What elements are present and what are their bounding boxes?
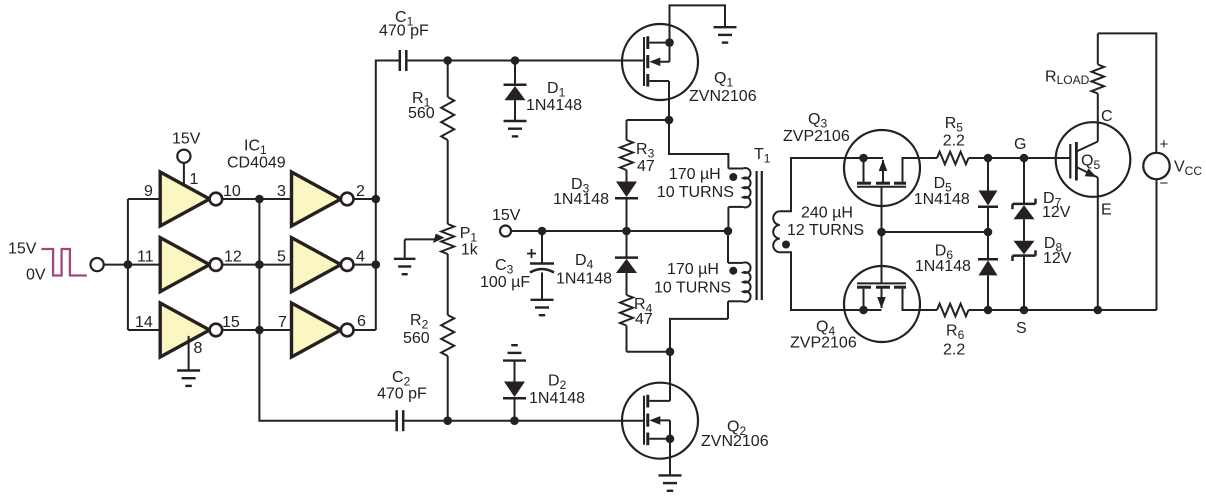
svg-text:CD4049: CD4049 <box>227 155 286 172</box>
svg-text:7: 7 <box>278 314 287 331</box>
capacitor C1 <box>379 9 429 71</box>
zener D8 12V <box>1013 235 1072 310</box>
diode D5 1N4148 <box>914 158 998 232</box>
node mid bus row1 <box>255 195 264 204</box>
wire winding2 to Q2 drain <box>670 319 728 352</box>
wire Q1 junction to winding <box>669 120 728 169</box>
svg-text:+: + <box>1160 136 1169 153</box>
svg-text:15V: 15V <box>492 207 521 224</box>
wire row3 out <box>353 329 376 331</box>
diode D6 1N4148 <box>915 232 998 310</box>
svg-text:ZVN2106: ZVN2106 <box>701 433 769 450</box>
node mid bus row3 <box>255 326 264 335</box>
node mid bus row2 <box>255 260 264 269</box>
node D2 bottom <box>510 416 519 425</box>
resistor R6 <box>937 304 969 359</box>
node D1 top <box>511 56 520 65</box>
wire Q4 gate up <box>881 232 883 283</box>
resistor R1 <box>408 61 454 141</box>
svg-text:170 µH: 170 µH <box>667 261 719 278</box>
transformer T1 core <box>754 146 771 300</box>
wire R1 to P1 <box>447 140 449 224</box>
node D5 D6 <box>984 228 993 237</box>
wire row2 out <box>353 264 376 266</box>
diode D4 1N4148 <box>556 231 638 295</box>
svg-text:170 µH: 170 µH <box>669 166 721 183</box>
wire R4 bottom <box>627 326 671 352</box>
wire D1 node to Q1 gate <box>515 60 644 62</box>
wire row1 input <box>128 198 160 200</box>
svg-text:100 µF: 100 µF <box>480 274 530 291</box>
ground pin8 <box>177 336 200 386</box>
resistor RLOAD <box>1045 33 1104 96</box>
wire R2 to C2 wire <box>447 356 449 421</box>
svg-text:15V: 15V <box>172 131 201 148</box>
svg-text:−: − <box>1160 175 1169 192</box>
transistor Q5 IGBT <box>1056 96 1131 310</box>
pin 12 <box>224 249 242 266</box>
svg-text:12 TURNS: 12 TURNS <box>787 222 864 239</box>
pin 5 <box>277 249 286 266</box>
wire 15V rail <box>511 230 728 232</box>
wire right bus <box>376 61 399 331</box>
node Q3 Q4 gates <box>877 228 886 237</box>
15V terminal mid <box>492 207 521 237</box>
transistor Q4 ZVP2106 <box>790 266 937 352</box>
wire VCC to S row <box>1156 179 1158 310</box>
pin 6 <box>357 313 366 330</box>
svg-text:560: 560 <box>403 330 430 347</box>
phase dot primary 1 <box>729 173 737 181</box>
label CD4049 <box>227 155 286 172</box>
ground Q1 drain <box>714 27 737 42</box>
ground C3 <box>531 300 554 315</box>
ground D1 <box>504 121 527 136</box>
node D5 top <box>984 154 993 163</box>
pin 15 <box>222 314 240 331</box>
pin 4 <box>356 249 365 266</box>
svg-text:1N4148: 1N4148 <box>556 271 612 288</box>
svg-text:2.2: 2.2 <box>943 342 965 359</box>
svg-text:12V: 12V <box>1042 204 1071 221</box>
svg-text:2.2: 2.2 <box>943 133 965 150</box>
svg-text:2: 2 <box>356 183 365 200</box>
node D7 top G <box>1020 154 1029 163</box>
svg-text:470 pF: 470 pF <box>379 23 429 40</box>
svg-text:3: 3 <box>277 183 286 200</box>
svg-text:ZVP2106: ZVP2106 <box>790 335 857 352</box>
wire C2 to R2 node <box>405 420 448 422</box>
svg-text:1N4148: 1N4148 <box>529 390 585 407</box>
svg-text:47: 47 <box>637 158 655 175</box>
svg-text:9: 9 <box>144 183 153 200</box>
wire row1 mid <box>222 198 291 200</box>
svg-text:12: 12 <box>224 249 242 266</box>
wire pin1 lead <box>183 163 185 185</box>
wire R3 top <box>627 120 670 140</box>
svg-text:1k: 1k <box>461 242 479 259</box>
inverter IC1d <box>292 172 354 226</box>
pin 11 <box>137 249 154 266</box>
node R1 top <box>443 56 452 65</box>
wire Q3 gate down <box>881 187 883 232</box>
node Q2 drain junction <box>666 347 675 356</box>
svg-text:E: E <box>1101 202 1112 219</box>
pin 3 <box>277 183 286 200</box>
wire input to bus <box>104 264 160 266</box>
wire row1 out <box>353 198 376 200</box>
inverter IC1f <box>292 303 354 357</box>
label IC1 <box>244 138 267 158</box>
phase dot secondary <box>782 241 790 249</box>
inverter IC1a <box>160 172 222 226</box>
transformer T1 primary winding 2 (170uH 10 turns) <box>654 231 751 319</box>
wire left bus <box>127 199 129 330</box>
transformer T1 primary winding 1 (170uH 10 turns) <box>657 166 751 231</box>
wire C1 to R1 node <box>408 60 448 62</box>
diode D3 1N4148 <box>553 176 638 231</box>
wire R6 to S row <box>969 309 1157 311</box>
svg-text:11: 11 <box>137 249 154 266</box>
svg-text:15: 15 <box>222 314 240 331</box>
svg-text:S: S <box>1016 320 1027 337</box>
svg-text:14: 14 <box>135 314 153 331</box>
svg-text:15V: 15V <box>8 241 37 258</box>
svg-text:6: 6 <box>357 313 366 330</box>
wire Q2 source to ground <box>669 439 671 476</box>
svg-text:560: 560 <box>408 105 435 122</box>
svg-text:12V: 12V <box>1043 250 1072 267</box>
node R2 bottom <box>443 416 452 425</box>
node Q5 emitter bottom <box>1094 306 1103 315</box>
wire row3 input <box>128 329 160 331</box>
svg-text:10 TURNS: 10 TURNS <box>654 280 731 297</box>
node input junction <box>124 260 133 269</box>
wire Q1 drain to top ground <box>670 5 726 42</box>
wire Q1 source down <box>668 81 670 120</box>
svg-text:10 TURNS: 10 TURNS <box>657 184 734 201</box>
node D8 bottom S <box>1020 306 1029 315</box>
wire gates to D5 D6 node <box>882 231 989 233</box>
transistor Q3 ZVP2106 <box>783 111 937 206</box>
transistor Q2 ZVN2106 <box>622 383 769 459</box>
svg-text:470 pF: 470 pF <box>377 386 427 403</box>
wire row3 mid <box>222 329 291 331</box>
svg-text:1: 1 <box>190 171 199 188</box>
wire R5 to Q5 gate <box>969 157 1071 159</box>
svg-text:10: 10 <box>223 183 241 200</box>
svg-text:ZVP2106: ZVP2106 <box>783 128 850 145</box>
15V supply terminal pin1 <box>172 131 201 163</box>
node center tap <box>724 227 733 236</box>
ground Q2 source <box>659 475 682 490</box>
svg-text:1N4148: 1N4148 <box>914 191 970 208</box>
wire P1 wiper to ground <box>404 239 406 258</box>
input square-wave annotation 15V/0V <box>8 241 87 284</box>
wire mid bus to C2 <box>259 199 395 421</box>
resistor R5 <box>937 115 969 164</box>
pin 9 <box>144 183 153 200</box>
wire row2 mid <box>222 264 291 266</box>
svg-text:240 µH: 240 µH <box>801 205 853 222</box>
input terminal <box>91 258 104 271</box>
svg-text:ZVN2106: ZVN2106 <box>689 88 757 105</box>
svg-text:1N4148: 1N4148 <box>915 258 971 275</box>
wire Q2 drain up <box>669 352 671 401</box>
inverter IC1c <box>160 303 222 357</box>
svg-text:C: C <box>1101 108 1113 125</box>
transistor Q1 ZVN2106 <box>622 24 757 105</box>
wire D2 node to Q2 gate <box>515 420 645 422</box>
pin 14 <box>135 314 153 331</box>
ground P1 wiper <box>394 259 416 274</box>
wire P1 to R2 <box>447 254 449 315</box>
svg-text:47: 47 <box>635 311 653 328</box>
capacitor C2 <box>377 369 427 431</box>
zener D7 12V <box>1013 158 1071 241</box>
svg-text:1N4148: 1N4148 <box>553 191 609 208</box>
pin 1 <box>190 171 199 188</box>
node D3 D4 <box>622 227 631 236</box>
svg-text:4: 4 <box>356 249 365 266</box>
inverter IC1e <box>292 238 354 292</box>
node C3 top <box>538 227 547 236</box>
ground D2 (inverted) <box>503 345 526 360</box>
node D6 bottom <box>984 306 993 315</box>
resistor R4 <box>620 295 653 328</box>
inverter IC1b <box>160 238 222 292</box>
node Q1 source junction <box>665 116 674 125</box>
svg-text:0V: 0V <box>26 267 46 284</box>
label S <box>1016 320 1027 337</box>
potentiometer P1 <box>405 224 479 259</box>
pin 10 <box>223 183 241 200</box>
node right bus row1 <box>372 195 381 204</box>
capacitor C3 100uF <box>480 231 554 300</box>
label G <box>1014 136 1026 153</box>
wire R2 node to D2 <box>448 420 515 422</box>
diode D2 1N4148 <box>503 361 585 421</box>
wire top RLOAD to VCC <box>1098 33 1157 152</box>
source VCC <box>1143 136 1202 192</box>
wire node to D1 <box>448 60 515 62</box>
svg-text:8: 8 <box>194 340 203 357</box>
pin 8 <box>194 340 203 357</box>
svg-text:G: G <box>1014 136 1026 153</box>
wire R3 to D3 <box>626 170 628 182</box>
pin 2 <box>356 183 365 200</box>
resistor R2 <box>403 312 454 356</box>
transformer T1 secondary (240uH 12 turns) <box>773 158 864 310</box>
pin 7 <box>278 314 287 331</box>
node right bus row2 <box>372 260 381 269</box>
svg-text:5: 5 <box>277 249 286 266</box>
svg-text:1N4148: 1N4148 <box>526 97 582 114</box>
diode D1 1N4148 <box>504 61 583 122</box>
phase dot primary 2 <box>729 267 737 275</box>
resistor R3 <box>620 140 655 175</box>
